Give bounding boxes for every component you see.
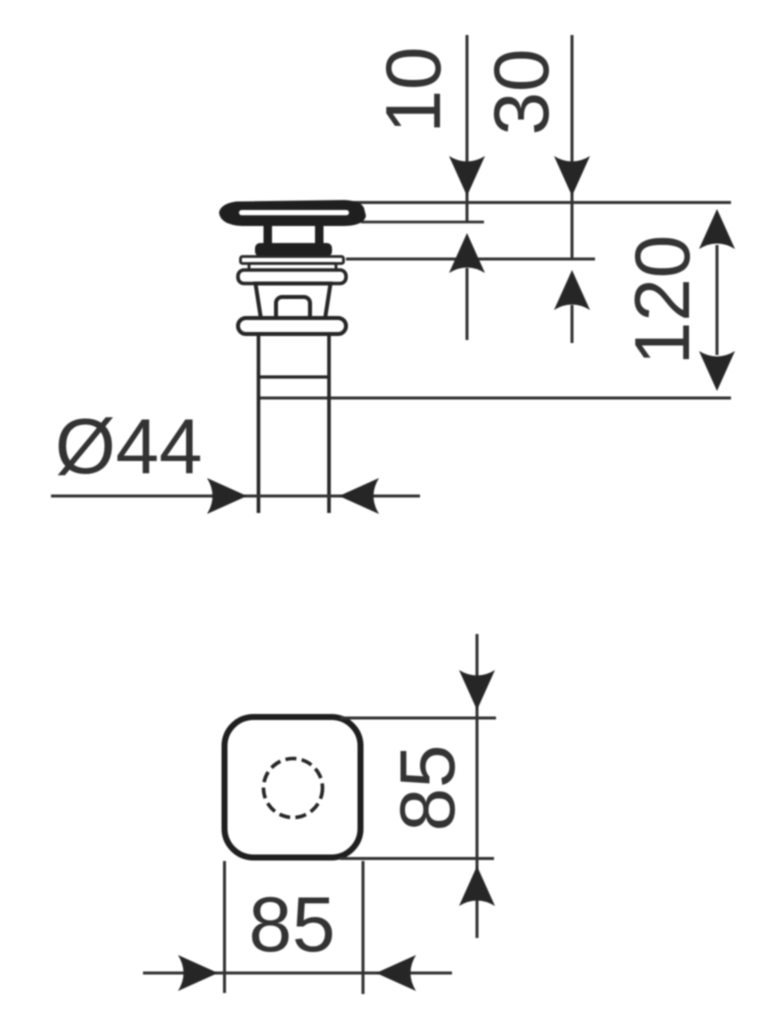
lower flange	[238, 318, 346, 334]
dimension 10 line	[466, 35, 469, 223]
svg-text:85: 85	[249, 880, 336, 968]
wire ring reference line (30)	[346, 258, 595, 261]
seal ring middle	[249, 264, 336, 271]
cap neck left bar	[264, 226, 273, 246]
top view dashed circle	[264, 759, 323, 818]
cap of drain valve	[219, 200, 366, 226]
cap slit highlight	[239, 210, 349, 215]
dimension D44 left arrow	[207, 478, 247, 514]
wire top-view upper extension	[340, 717, 496, 720]
dimension 85 horizontal left-pointing arrow	[376, 955, 416, 991]
svg-text:Ø44: Ø44	[55, 402, 202, 490]
dimension 10 down arrow	[449, 156, 485, 196]
cap neck right bar	[315, 226, 324, 246]
valve body tapered	[256, 284, 331, 320]
dimension 10 up arrow	[449, 233, 485, 273]
dimension 85 vertical line	[476, 634, 479, 938]
dimension D44 line	[51, 495, 420, 498]
dimension 30 tail	[571, 305, 574, 343]
wire top-view left extension	[223, 861, 226, 993]
dimension 85 horizontal line	[143, 972, 452, 975]
svg-text:120: 120	[618, 235, 706, 365]
wire bottom reference line (120)	[259, 397, 732, 400]
seal ring lower	[238, 270, 346, 284]
neck flange (black band)	[255, 243, 332, 257]
tube left wall	[257, 334, 261, 513]
valve body notch	[276, 297, 310, 321]
dimension 120 up arrow	[699, 209, 735, 249]
tube right wall	[327, 334, 331, 513]
svg-text:85: 85	[383, 745, 471, 832]
tube groove line	[259, 375, 330, 378]
dimension 85 vertical down arrow	[459, 670, 495, 710]
wire top-view right extension	[362, 861, 365, 994]
svg-text:30: 30	[477, 49, 565, 136]
svg-text:10: 10	[369, 47, 457, 134]
seal ring upper	[241, 257, 344, 264]
top view squircle body	[225, 717, 361, 858]
wire top-view lower extension	[340, 857, 494, 860]
dimension 85 vertical up arrow	[459, 866, 495, 906]
dimension 120 down arrow	[699, 351, 735, 391]
wire cap underside reference line (10)	[361, 221, 484, 224]
dimension D44 right arrow	[339, 478, 379, 514]
dimension 30 line	[571, 35, 574, 259]
dimension 30 up arrow	[554, 270, 590, 310]
dimension 30 down arrow	[554, 156, 590, 196]
wire top reference line (deck surface)	[345, 201, 731, 204]
dimension 85 horizontal right-pointing arrow	[178, 955, 218, 991]
dimension 120 line	[716, 245, 719, 355]
dimension 10 tail	[466, 268, 469, 340]
